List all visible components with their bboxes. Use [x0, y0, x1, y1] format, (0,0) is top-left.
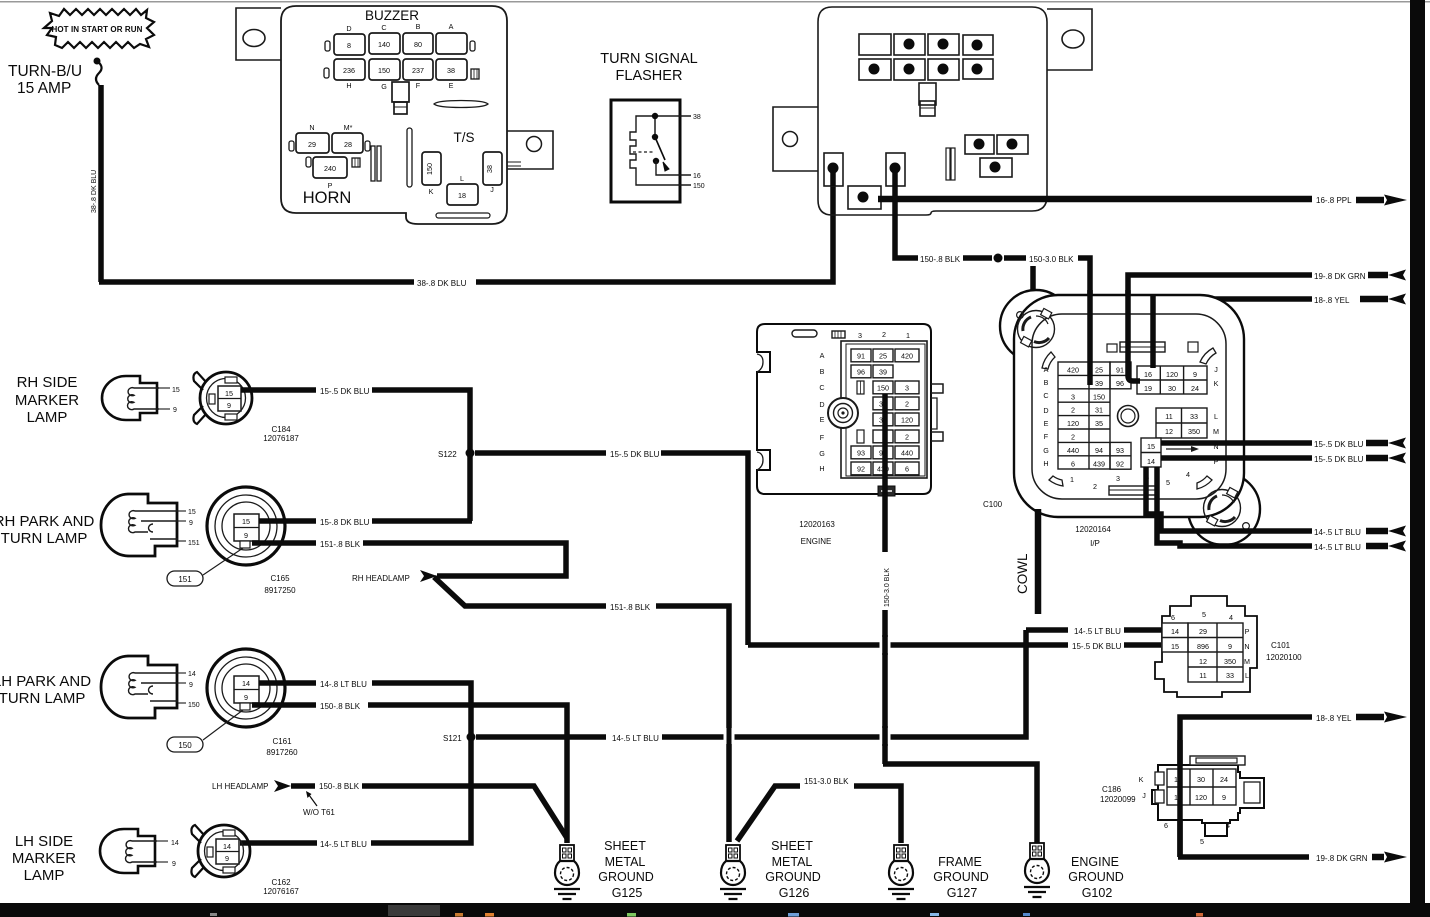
- svg-text:236: 236: [343, 66, 355, 75]
- label 12020164 I/P: [1075, 525, 1111, 548]
- C101 pin grid: [1162, 623, 1243, 682]
- wire 150-.8 BLK from junction block: [895, 186, 918, 258]
- svg-text:G102: G102: [1082, 886, 1113, 900]
- slot in fuse block bottom: [436, 213, 490, 218]
- horn fuse clips: [289, 141, 370, 167]
- svg-text:440: 440: [1067, 446, 1079, 455]
- svg-text:91: 91: [1116, 366, 1124, 375]
- wire 151-3.0 BLK to frame ground: [737, 786, 901, 843]
- wire 15-.5 DK BLU from S122 to C101: [475, 453, 1161, 645]
- C186 cavity numbers 6 5 4: [1164, 821, 1230, 846]
- svg-text:3: 3: [905, 383, 909, 392]
- svg-text:J: J: [1214, 365, 1218, 374]
- label LH SIDE MARKER LAMP: [12, 833, 76, 884]
- svg-text:150: 150: [178, 741, 192, 750]
- fuse clips row2: [324, 68, 479, 79]
- label C186 12020099: [1100, 785, 1136, 804]
- connector C162 round body: [191, 825, 250, 877]
- svg-text:G: G: [1043, 446, 1049, 455]
- wire 18-.8 YEL (top right): [1153, 299, 1312, 368]
- wire 14-.5 LT BLU upper to IP: [1146, 467, 1312, 531]
- arrow out 19-.8 DK GRN lower: [1372, 852, 1407, 863]
- svg-text:RH PARK AND: RH PARK AND: [0, 513, 94, 530]
- svg-text:M*: M*: [344, 123, 353, 132]
- svg-text:15-.5 DK BLU: 15-.5 DK BLU: [1072, 642, 1122, 651]
- svg-text:14-.8 LT BLU: 14-.8 LT BLU: [320, 680, 367, 689]
- svg-text:3: 3: [1071, 392, 1075, 401]
- svg-text:B: B: [1044, 378, 1049, 387]
- svg-text:15 AMP: 15 AMP: [17, 80, 71, 97]
- C100 engine column numbers 3 2 1: [858, 330, 910, 340]
- svg-text:14: 14: [223, 842, 231, 851]
- svg-text:19-.8 DK GRN: 19-.8 DK GRN: [1314, 272, 1366, 281]
- pin lead 9 RH side marker: [159, 407, 177, 414]
- wire 19-.8 DK GRN lower: [1178, 854, 1309, 860]
- arrow in 14-.5 LT BLU upper: [1366, 526, 1406, 537]
- connector C100 I/P side body: [1000, 290, 1260, 545]
- leader to terminal 150: [203, 710, 243, 740]
- svg-text:E: E: [820, 415, 825, 424]
- svg-text:38: 38: [693, 114, 701, 121]
- svg-text:30: 30: [1168, 384, 1176, 393]
- fuse clips row1: [325, 41, 475, 51]
- splice S121: [443, 733, 476, 744]
- wire segment from splice: [1004, 255, 1026, 261]
- connector C165 round body: [207, 487, 285, 565]
- wire 150-3.0 BLK into cowl connector: [1078, 258, 1090, 385]
- splice junction dot: [994, 254, 1003, 263]
- fuse M* 28: [332, 123, 363, 153]
- svg-text:6: 6: [1164, 821, 1168, 830]
- svg-text:14: 14: [188, 671, 196, 678]
- C100 I/P pin grid J/K: [1137, 365, 1219, 394]
- svg-text:93: 93: [857, 448, 865, 457]
- wire 14-.5 LT BLU lower to IP: [1157, 467, 1312, 546]
- wire 19-.8 DK GRN (top right): [1128, 275, 1312, 381]
- terminal stud A (to 38 wire): [824, 153, 843, 186]
- svg-text:9: 9: [173, 407, 177, 414]
- svg-text:4: 4: [1226, 821, 1230, 830]
- svg-text:C100: C100: [983, 500, 1003, 509]
- svg-text:92: 92: [857, 464, 865, 473]
- vertical divider slot: [407, 128, 412, 187]
- svg-text:H: H: [346, 81, 351, 90]
- connector C100 engine side body: [757, 324, 943, 494]
- relay cavity row 2: [859, 59, 993, 80]
- svg-text:25: 25: [1095, 366, 1103, 375]
- bus bar pair: [371, 146, 381, 181]
- callout oval 150: [167, 737, 203, 752]
- ground terminal G126: [720, 845, 746, 899]
- convenience center fuse block mounting tab left: [236, 8, 281, 60]
- svg-text:LAMP: LAMP: [27, 409, 68, 426]
- svg-text:LH SIDE: LH SIDE: [15, 833, 73, 850]
- svg-text:11: 11: [1199, 671, 1206, 680]
- svg-text:150-3.0 BLK: 150-3.0 BLK: [884, 568, 891, 607]
- C100 I/P pin grid L/M: [1156, 408, 1219, 438]
- wire 38-.8 DK BLU horizontal run to junction block: [99, 186, 833, 282]
- pin lead 9 LH side marker: [157, 861, 176, 868]
- svg-text:12020099: 12020099: [1100, 795, 1136, 804]
- svg-text:LH HEADLAMP: LH HEADLAMP: [212, 782, 268, 791]
- svg-text:25: 25: [879, 351, 887, 360]
- svg-text:9: 9: [1228, 642, 1232, 651]
- svg-text:L: L: [460, 174, 464, 183]
- wire 14-.8 LT BLU to S121 drop: [372, 683, 471, 737]
- svg-text:4: 4: [1186, 470, 1190, 479]
- wire 150-3.0 BLK vertical from engine connector: [882, 394, 888, 764]
- C100 engine top slots: [792, 330, 845, 338]
- svg-text:12: 12: [1199, 657, 1207, 666]
- svg-text:35: 35: [1095, 419, 1103, 428]
- svg-text:150-3.0 BLK: 150-3.0 BLK: [1029, 255, 1074, 264]
- label 12020163 ENGINE: [799, 520, 835, 546]
- C101 row letters P N M L: [1244, 627, 1250, 680]
- svg-text:18-.8 YEL: 18-.8 YEL: [1314, 296, 1350, 305]
- fuse A (blank): [436, 22, 467, 54]
- flasher heater element: [630, 116, 691, 185]
- C100 I/P center circle: [1118, 406, 1139, 427]
- wire 150-.8 BLK from C161: [252, 702, 316, 708]
- wire 16-.8 PPL: [833, 168, 1312, 199]
- C100 I/P bottom cavity numbers: [1145, 470, 1190, 487]
- svg-text:C: C: [819, 383, 824, 392]
- label LH HEADLAMP with arrow: [212, 780, 315, 792]
- svg-text:38: 38: [485, 165, 494, 173]
- turn signal flasher label: [600, 51, 698, 84]
- svg-text:350: 350: [1188, 427, 1200, 436]
- svg-text:29: 29: [1199, 627, 1207, 636]
- svg-text:8917260: 8917260: [266, 748, 298, 757]
- svg-text:11: 11: [1165, 412, 1172, 421]
- svg-text:350: 350: [1224, 657, 1236, 666]
- svg-text:LAMP: LAMP: [24, 867, 65, 884]
- svg-text:C161: C161: [272, 737, 292, 746]
- svg-text:S121: S121: [443, 734, 462, 743]
- svg-text:HOT IN START OR RUN: HOT IN START OR RUN: [51, 25, 142, 34]
- svg-text:C: C: [1043, 391, 1048, 400]
- svg-text:5: 5: [1166, 478, 1170, 487]
- svg-text:96: 96: [857, 367, 865, 376]
- wire 151-.8 BLK to RH headlamp branch: [363, 543, 566, 576]
- svg-text:420: 420: [1067, 366, 1079, 375]
- svg-text:29: 29: [308, 140, 316, 149]
- svg-text:METAL: METAL: [772, 855, 813, 869]
- wire 151-.8 BLK from C165: [252, 540, 316, 546]
- svg-text:E: E: [449, 81, 454, 90]
- svg-text:G125: G125: [612, 886, 643, 900]
- C100 I/P top slots and arcs: [1042, 342, 1216, 495]
- C100 I/P direction arrow near pin 15: [1166, 446, 1199, 452]
- svg-text:420: 420: [901, 351, 913, 360]
- wire crossing 150-3.0 BLK over 15-.5 DK BLU: [880, 635, 891, 655]
- C101 column numbers 6 5 4: [1171, 610, 1233, 622]
- wire 15-.5 DK BLU to S122 drop: [372, 390, 470, 521]
- svg-text:151-3.0 BLK: 151-3.0 BLK: [804, 777, 849, 786]
- svg-text:150: 150: [877, 383, 889, 392]
- svg-text:GROUND: GROUND: [1068, 870, 1124, 884]
- svg-text:2: 2: [1093, 482, 1097, 491]
- label RH HEADLAMP with arrow: [352, 570, 437, 583]
- pin lead 15 RH side marker: [159, 387, 180, 394]
- svg-text:BUZZER: BUZZER: [365, 8, 419, 23]
- svg-text:9: 9: [225, 854, 229, 863]
- svg-text:L: L: [1214, 412, 1218, 421]
- svg-text:14-.5 LT BLU: 14-.5 LT BLU: [1314, 528, 1361, 537]
- C100 engine bullseye: [828, 398, 858, 428]
- label ENGINE GROUND G102: [1068, 855, 1124, 900]
- svg-text:GROUND: GROUND: [933, 870, 989, 884]
- svg-text:439: 439: [1093, 459, 1105, 468]
- svg-text:TURN LAMP: TURN LAMP: [1, 530, 88, 547]
- wire 15-.5 DK BLU upper to IP: [1161, 440, 1312, 446]
- svg-text:14: 14: [1147, 457, 1155, 466]
- fuse G 150: [369, 59, 400, 91]
- wire 18-.8 YEL through C186: [1177, 740, 1183, 857]
- svg-text:120: 120: [1195, 793, 1207, 802]
- label SHEET METAL GROUND G125: [598, 839, 654, 900]
- wire 19-.8 DK GRN overlay inside connector: [1128, 290, 1140, 381]
- wire stub to cowl connector lobe: [1030, 266, 1036, 312]
- svg-text:I/P: I/P: [1090, 539, 1100, 548]
- C100 I/P pin grid left (rows A-H): [1043, 362, 1131, 491]
- svg-text:39: 39: [879, 367, 887, 376]
- fuse TURN-B/U 15 AMP label: [8, 63, 82, 97]
- svg-text:80: 80: [414, 40, 422, 49]
- svg-text:J: J: [1142, 791, 1146, 800]
- svg-text:N: N: [309, 123, 314, 132]
- wire 150-3.0 BLK to engine ground: [883, 764, 1037, 843]
- svg-text:TURN LAMP: TURN LAMP: [0, 690, 85, 707]
- svg-text:28: 28: [344, 140, 352, 149]
- lamp bulb RH side marker: [102, 376, 159, 420]
- svg-text:G127: G127: [947, 886, 978, 900]
- svg-text:38-.8 DK BLU: 38-.8 DK BLU: [91, 170, 98, 213]
- svg-text:H: H: [819, 464, 824, 473]
- svg-text:15: 15: [1171, 642, 1179, 651]
- svg-text:16-.8 PPL: 16-.8 PPL: [1316, 196, 1352, 205]
- svg-text:FRAME: FRAME: [938, 855, 982, 869]
- svg-text:C165: C165: [270, 574, 290, 583]
- svg-text:92: 92: [1116, 459, 1124, 468]
- arrow in 19-.8 DK GRN: [1368, 270, 1406, 281]
- connector C186 body: [1152, 756, 1264, 836]
- flasher mechanical link (dashed): [633, 151, 653, 153]
- svg-text:16: 16: [1144, 370, 1152, 379]
- svg-text:9: 9: [1222, 793, 1226, 802]
- svg-text:9: 9: [244, 693, 248, 702]
- connector C161 round body: [207, 649, 285, 727]
- connector C101 body: [1155, 596, 1257, 697]
- wire 38-.8 DK BLU fuse pigtail curl: [94, 58, 102, 86]
- svg-text:D: D: [819, 400, 824, 409]
- svg-text:151-.8 BLK: 151-.8 BLK: [610, 603, 651, 612]
- svg-text:38-.8 DK BLU: 38-.8 DK BLU: [417, 279, 467, 288]
- svg-text:MARKER: MARKER: [15, 392, 79, 409]
- svg-text:F: F: [1044, 432, 1049, 441]
- label FRAME GROUND G127: [933, 855, 989, 900]
- svg-text:1: 1: [1070, 475, 1074, 484]
- convenience center fuse block outline: [281, 6, 507, 224]
- C100 I/P lobe keyhole top-left: [1017, 308, 1055, 347]
- svg-text:F: F: [416, 81, 421, 90]
- svg-text:140: 140: [378, 40, 390, 49]
- svg-text:C186: C186: [1102, 785, 1122, 794]
- pin lead 150 LH park: [178, 702, 200, 709]
- circuit breaker below fuses: [392, 82, 409, 114]
- arrow out 16-.8 PPL: [1356, 195, 1407, 206]
- svg-text:240: 240: [324, 164, 336, 173]
- svg-text:151: 151: [188, 540, 200, 547]
- svg-text:8: 8: [347, 41, 351, 50]
- svg-text:38: 38: [447, 66, 455, 75]
- svg-text:18: 18: [458, 191, 466, 200]
- svg-text:ENGINE: ENGINE: [1071, 855, 1119, 869]
- fuse D 8: [334, 24, 365, 55]
- lamp bulb LH side marker: [100, 829, 157, 873]
- svg-text:39: 39: [1095, 379, 1103, 388]
- svg-text:RH SIDE: RH SIDE: [17, 374, 78, 391]
- junction block mounting tab left: [773, 107, 818, 171]
- wire S121 down to LH side marker: [240, 737, 471, 843]
- svg-text:METAL: METAL: [605, 855, 646, 869]
- lower single cavity: [980, 158, 1012, 177]
- svg-text:93: 93: [1116, 446, 1124, 455]
- svg-text:W/O T61: W/O T61: [303, 808, 335, 817]
- wire 150-.8 BLK headlamp to G125: [362, 786, 567, 838]
- svg-text:D: D: [346, 24, 351, 33]
- arrow in 15-.5 DK BLU lower: [1366, 453, 1406, 464]
- svg-text:14-.5 LT BLU: 14-.5 LT BLU: [1074, 627, 1121, 636]
- svg-text:12: 12: [1165, 427, 1173, 436]
- fuse P 240: [313, 157, 347, 190]
- label C162 12076167: [263, 878, 299, 896]
- svg-text:2: 2: [905, 432, 909, 441]
- label 14-.5 LT BLU on side marker wire: [317, 837, 371, 849]
- arrow in 15-.5 DK BLU upper: [1366, 438, 1406, 449]
- lamp bulb RH park and turn: [101, 494, 178, 556]
- wire 150-.8 BLK to G125: [368, 705, 567, 843]
- svg-text:9: 9: [189, 682, 193, 689]
- svg-text:14: 14: [242, 679, 250, 688]
- svg-text:2: 2: [905, 399, 909, 408]
- svg-text:31: 31: [1095, 406, 1103, 415]
- lower cavity pair: [965, 135, 1028, 154]
- wire 14-.8 LT BLU from C161: [259, 680, 316, 686]
- label RH PARK AND TURN LAMP: [0, 513, 94, 547]
- wire 15-.5 DK BLU lower to IP: [1161, 455, 1312, 461]
- svg-text:9: 9: [1193, 370, 1197, 379]
- C100 I/P lobe keyhole bottom-right: [1204, 487, 1250, 529]
- svg-text:16: 16: [693, 173, 701, 180]
- svg-text:150-.8 BLK: 150-.8 BLK: [320, 702, 361, 711]
- svg-text:3: 3: [1116, 474, 1120, 483]
- svg-text:15-.8 DK BLU: 15-.8 DK BLU: [320, 518, 370, 527]
- pin lead 9 RH park: [178, 520, 193, 527]
- C100 engine inner shroud: [841, 341, 927, 478]
- svg-text:TURN-B/U: TURN-B/U: [8, 63, 82, 80]
- fuse B 80: [403, 22, 433, 54]
- svg-text:S122: S122: [438, 450, 457, 459]
- ground terminal G125: [554, 845, 580, 899]
- C100 I/P pins 15/14 (N/P): [1141, 438, 1219, 467]
- pin lead 9 LH park: [178, 682, 193, 689]
- wire 38-.8 DK BLU vertical from fuse: [98, 85, 104, 282]
- svg-text:5: 5: [1202, 610, 1206, 619]
- svg-text:B: B: [820, 367, 825, 376]
- svg-text:12020164: 12020164: [1075, 525, 1111, 534]
- svg-text:19-.8 DK GRN: 19-.8 DK GRN: [1316, 854, 1368, 863]
- note W/O T61: [303, 791, 335, 817]
- svg-text:120: 120: [1166, 370, 1178, 379]
- svg-text:B: B: [416, 22, 421, 31]
- svg-text:120: 120: [1067, 419, 1079, 428]
- svg-text:150: 150: [1093, 392, 1105, 401]
- arrow out 18-.8 YEL lower: [1356, 712, 1407, 723]
- svg-text:FLASHER: FLASHER: [616, 68, 683, 84]
- svg-text:C184: C184: [271, 425, 291, 434]
- svg-text:9: 9: [227, 401, 231, 410]
- svg-text:30: 30: [1197, 775, 1205, 784]
- svg-text:MARKER: MARKER: [12, 850, 76, 867]
- svg-text:J: J: [490, 185, 494, 194]
- wire segment to splice: [963, 255, 992, 261]
- svg-text:RH HEADLAMP: RH HEADLAMP: [352, 574, 410, 583]
- svg-text:F: F: [820, 433, 825, 442]
- C100 engine bottom tab: [878, 486, 895, 496]
- svg-text:SHEET: SHEET: [771, 839, 813, 853]
- wire crossing 151-.8 BLK over 14-.5 LT BLU: [724, 726, 735, 746]
- vertical slot: [946, 148, 955, 180]
- svg-text:6: 6: [1071, 459, 1075, 468]
- flasher switch contacts: [652, 113, 691, 175]
- C100 engine pin grid: [851, 349, 919, 475]
- junction block outline: [818, 7, 1047, 215]
- fuse L 18: [447, 174, 478, 205]
- pin lead 151 RH park: [178, 540, 200, 547]
- svg-text:6: 6: [1171, 613, 1175, 622]
- wire 15-.8 DK BLU to S122 vertical: [372, 518, 472, 524]
- lamp bulb LH park and turn: [101, 656, 178, 718]
- wire 151-.8 BLK branch to G126: [434, 577, 729, 842]
- C186 pin grid: [1167, 769, 1236, 805]
- svg-text:2: 2: [1071, 406, 1075, 415]
- label SHEET METAL GROUND G126: [765, 839, 821, 900]
- wire crossing 150-3.0 BLK over 14-.5 LT BLU: [880, 726, 891, 746]
- fuse C 140: [369, 23, 400, 54]
- wire 14-.5 LT BLU from S121 to I/P: [476, 630, 1162, 737]
- power source flag HOT IN START OR RUN: [44, 9, 154, 48]
- svg-text:H: H: [1043, 459, 1048, 468]
- svg-text:C: C: [381, 23, 386, 32]
- svg-text:15-.5 DK BLU: 15-.5 DK BLU: [1314, 455, 1364, 464]
- lens slot: [434, 101, 488, 108]
- svg-text:151: 151: [178, 575, 192, 584]
- turn signal flasher body: [611, 100, 680, 202]
- svg-text:14: 14: [171, 840, 179, 847]
- svg-text:9: 9: [172, 861, 176, 868]
- svg-text:C162: C162: [271, 878, 291, 887]
- arrow in 14-.5 LT BLU lower: [1366, 541, 1406, 552]
- svg-text:18-.8 YEL: 18-.8 YEL: [1316, 714, 1352, 723]
- leader to terminal 151: [203, 548, 243, 575]
- svg-text:12076187: 12076187: [263, 434, 299, 443]
- label C161 8917260: [266, 737, 298, 757]
- svg-text:15-.5 DK BLU: 15-.5 DK BLU: [1314, 440, 1364, 449]
- svg-text:14-.5 LT BLU: 14-.5 LT BLU: [612, 734, 659, 743]
- svg-text:A: A: [1044, 365, 1049, 374]
- svg-text:HORN: HORN: [303, 189, 352, 207]
